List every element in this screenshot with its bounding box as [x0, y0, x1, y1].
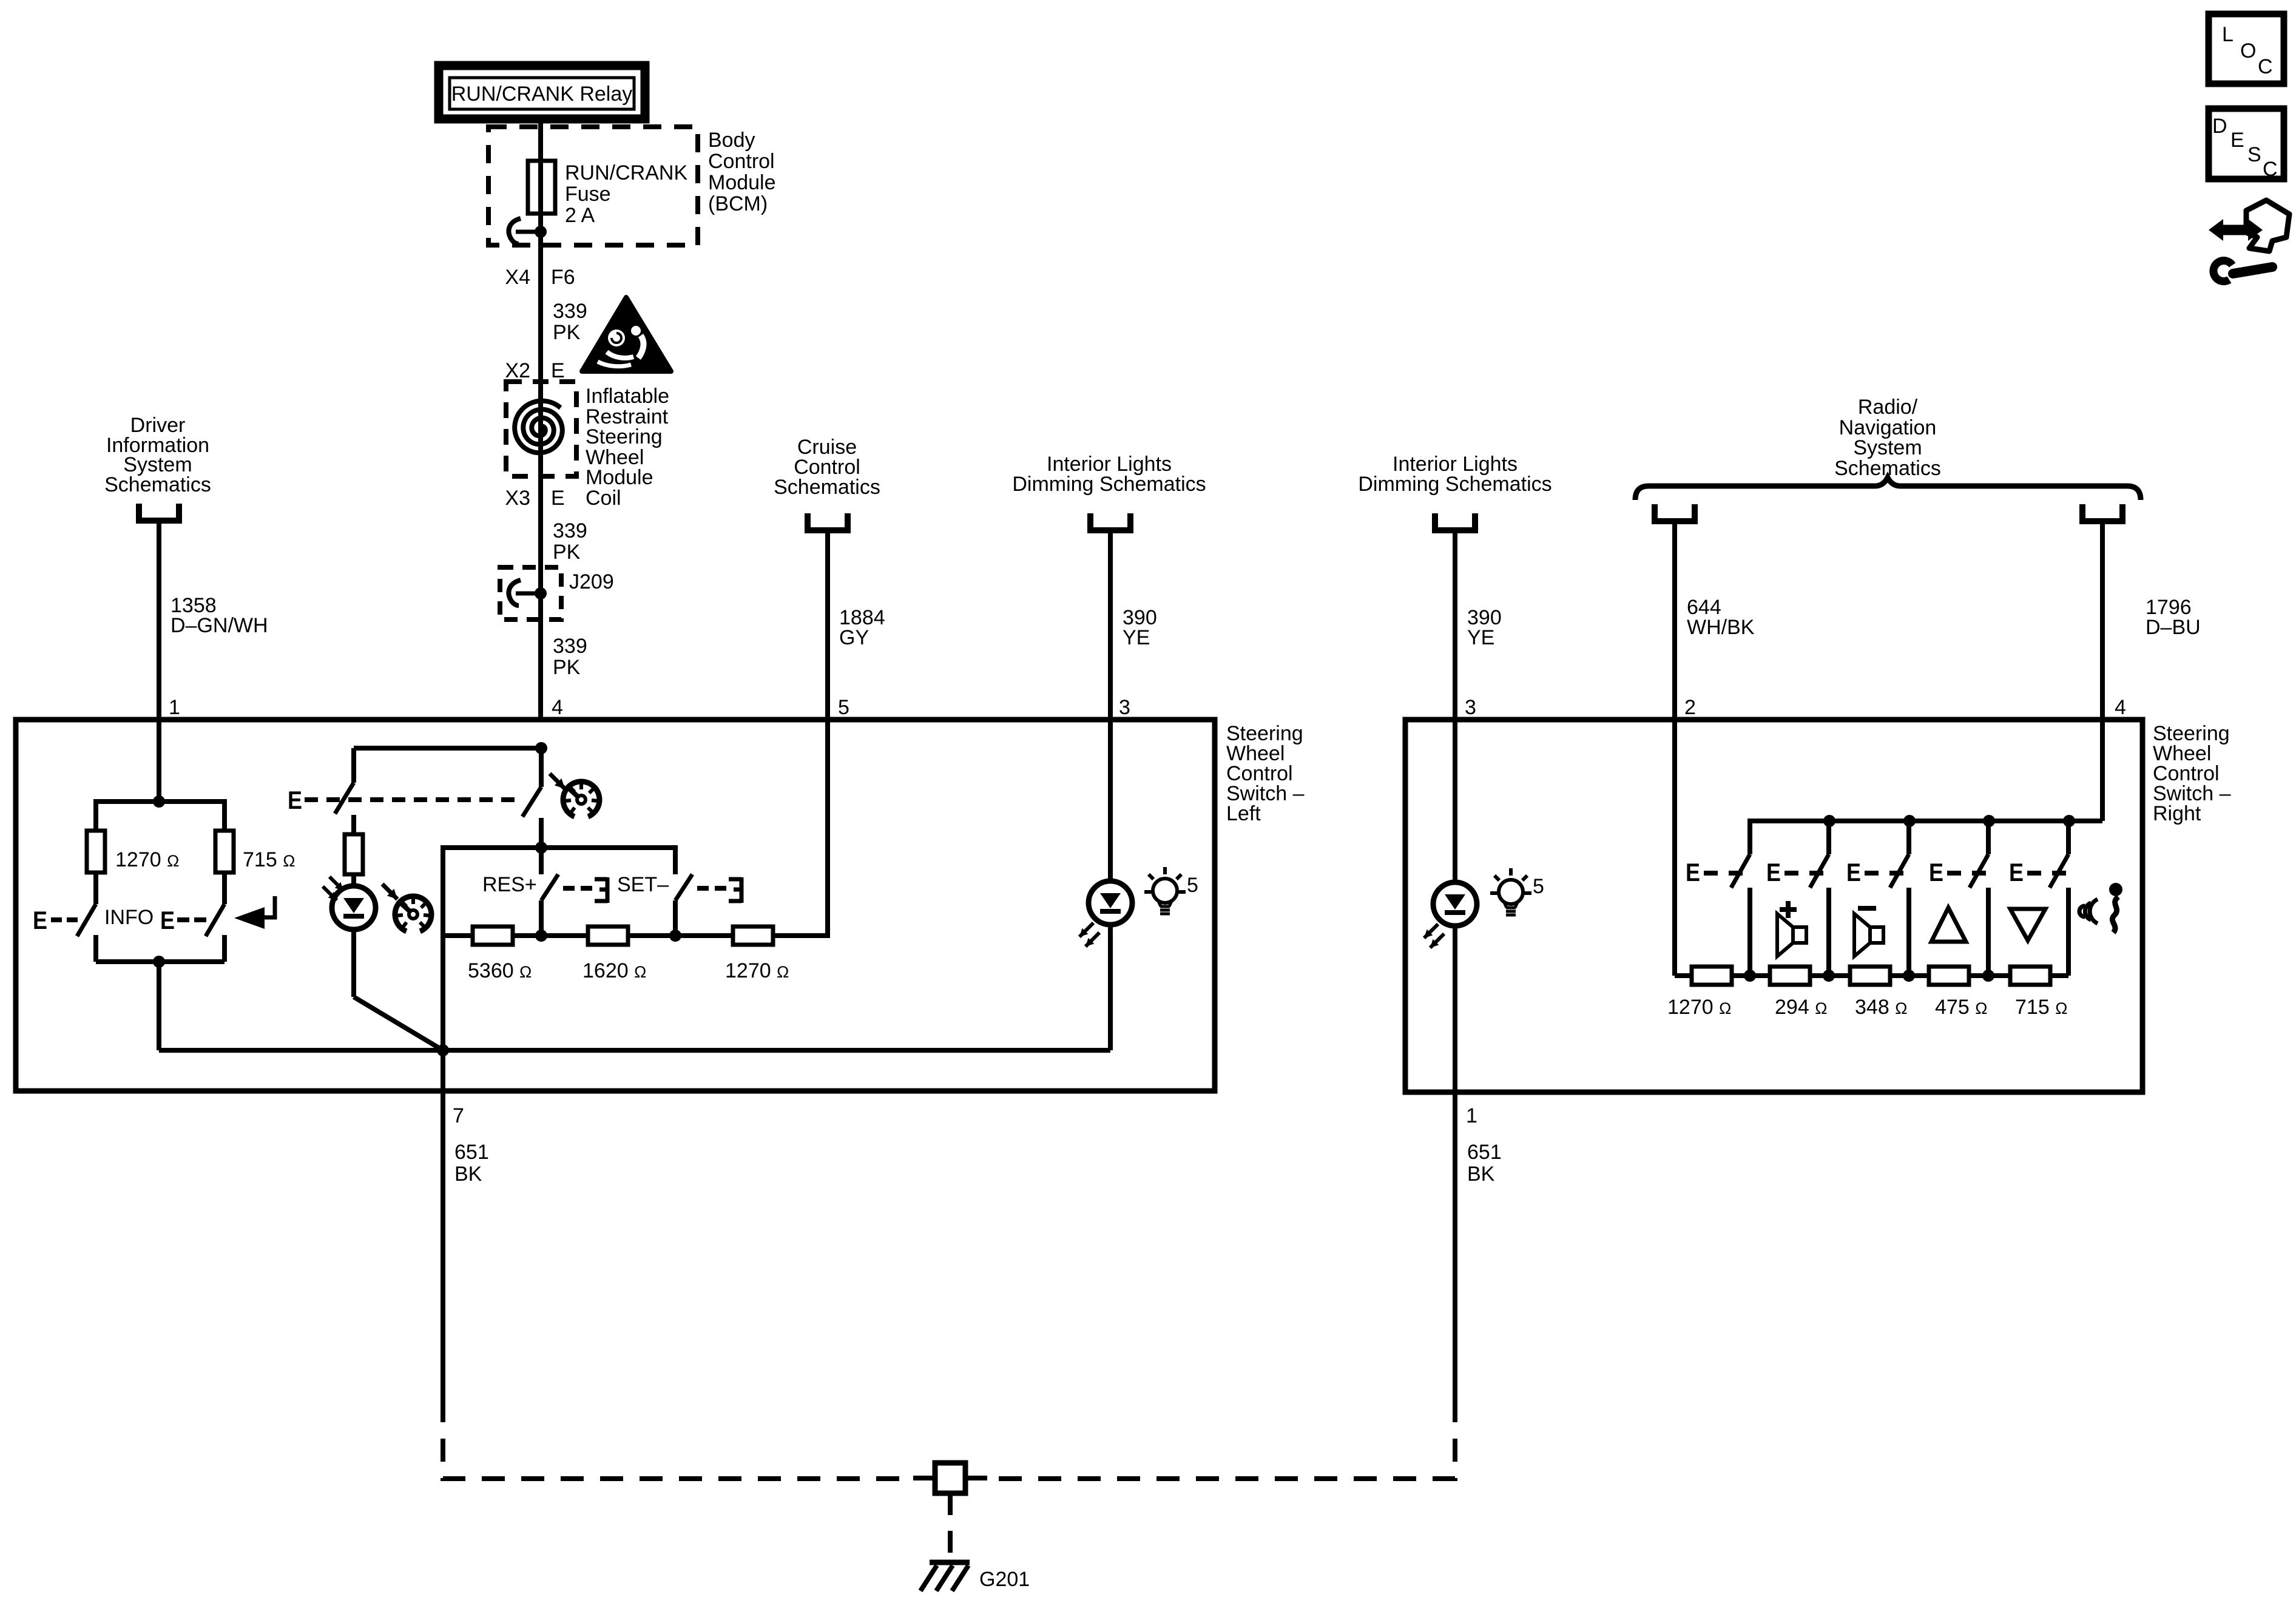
detent RES+ — [595, 877, 607, 882]
ground rail left box — [159, 1048, 1110, 1053]
BCM internal splice hook — [508, 218, 521, 244]
svg-text:1: 1 — [1466, 1104, 1477, 1127]
resistor 348 ohm — [1850, 967, 1890, 985]
resistor 294 ohm — [1770, 967, 1810, 985]
switch cruise on/off — [351, 748, 356, 783]
svg-text:Radio/: Radio/ — [1858, 396, 1918, 419]
svg-text:Inflatable: Inflatable — [586, 385, 669, 408]
svg-text:WH/BK: WH/BK — [1687, 616, 1755, 639]
wire 651 BK right — [1453, 1092, 1457, 1399]
svg-text:Dimming Schematics: Dimming Schematics — [1012, 473, 1206, 496]
switch seek down — [1986, 821, 1991, 854]
svg-text:RUN/CRANK Relay: RUN/CRANK Relay — [451, 83, 633, 106]
svg-text:G201: G201 — [979, 1568, 1030, 1591]
svg-text:3: 3 — [1119, 696, 1130, 719]
svg-text:System: System — [1853, 436, 1922, 459]
wire 1884 GY — [825, 530, 830, 720]
svg-text:1270 Ω: 1270 Ω — [1667, 996, 1731, 1019]
svg-text:294 Ω: 294 Ω — [1775, 996, 1827, 1019]
svg-text:651: 651 — [1467, 1141, 1502, 1164]
volume plus icon — [1780, 907, 1797, 912]
switch RES+ — [539, 848, 544, 874]
svg-text:3: 3 — [1465, 696, 1476, 719]
cruise on/off branch rail — [354, 746, 541, 751]
clockspring coil spiral J? — [538, 382, 543, 476]
svg-text:4: 4 — [552, 696, 563, 719]
svg-text:715 Ω: 715 Ω — [243, 848, 295, 871]
off-page connector cruise — [808, 513, 848, 530]
INFO network bottom rail — [96, 959, 225, 964]
LED interior dimming left — [1089, 881, 1132, 925]
svg-text:PK: PK — [553, 541, 581, 564]
switch INFO left — [93, 873, 98, 904]
switch INFO right — [222, 873, 227, 904]
svg-text:PK: PK — [553, 656, 581, 679]
svg-text:Left: Left — [1226, 802, 1261, 825]
svg-text:F6: F6 — [551, 266, 575, 289]
svg-text:INFO: INFO — [104, 906, 154, 929]
svg-text:E: E — [1846, 858, 1861, 886]
svg-text:O: O — [2240, 39, 2256, 62]
ground connector square — [913, 1476, 935, 1480]
svg-text:SET–: SET– — [617, 873, 669, 896]
svg-text:YE: YE — [1467, 626, 1494, 649]
brace radio/navigation — [1635, 478, 2141, 500]
svg-text:RUN/CRANK: RUN/CRANK — [565, 161, 687, 184]
LED interior dimming right — [1433, 882, 1477, 926]
switch seek up — [1906, 821, 1911, 854]
svg-text:C: C — [2263, 158, 2278, 181]
wire LED to pin 1 — [1453, 926, 1457, 1092]
inflatable restraint steering wheel module coil dashed box — [506, 382, 576, 476]
svg-text:E: E — [33, 906, 47, 934]
steering wheel control switch right box — [1405, 720, 2142, 1092]
svg-text:YE: YE — [1123, 626, 1150, 649]
svg-text:E: E — [551, 487, 565, 510]
fuse F6 RUN/CRANK 2A — [538, 161, 543, 214]
svg-text:X3: X3 — [505, 487, 530, 510]
splice J209 dashed box — [500, 567, 561, 619]
resistor 1270 ohm right — [1692, 967, 1732, 985]
svg-text:X4: X4 — [505, 266, 530, 289]
wire LED to ground rail left — [1108, 925, 1113, 1050]
svg-text:Steering: Steering — [586, 425, 663, 448]
svg-text:C: C — [2258, 55, 2273, 78]
resistor 1270 ohm INFO — [87, 831, 105, 873]
svg-text:475 Ω: 475 Ω — [1935, 996, 1987, 1019]
off-page connector interior lights left — [1090, 513, 1130, 530]
RUN/CRANK relay box — [439, 66, 645, 119]
svg-text:Right: Right — [2153, 802, 2201, 825]
resistor 1620 ohm — [588, 927, 628, 945]
steering wheel control switch left box — [16, 720, 1215, 1091]
svg-text:2 A: 2 A — [565, 204, 595, 227]
off-page connector interior lights right — [1435, 513, 1475, 530]
svg-text:1270 Ω: 1270 Ω — [725, 959, 789, 982]
svg-text:L: L — [2222, 23, 2234, 46]
svg-text:BK: BK — [454, 1163, 482, 1186]
svg-text:RES+: RES+ — [482, 873, 537, 896]
svg-text:Fuse: Fuse — [565, 183, 611, 206]
voice recognition icon — [2109, 883, 2122, 896]
svg-text:1620 Ω: 1620 Ω — [582, 959, 646, 982]
svg-text:S: S — [2247, 143, 2261, 166]
svg-text:348 Ω: 348 Ω — [1855, 996, 1907, 1019]
seek up triangle icon — [1931, 908, 1966, 942]
svg-text:X2: X2 — [505, 359, 530, 382]
svg-text:Dimming Schematics: Dimming Schematics — [1358, 473, 1551, 496]
svg-text:BK: BK — [1467, 1163, 1495, 1186]
wire 339 PK to pin 4 — [538, 567, 543, 720]
dashed ground wire right — [987, 1399, 1455, 1479]
SIR airbag warning triangle — [582, 297, 671, 371]
detent SET- — [729, 877, 741, 882]
svg-text:PK: PK — [553, 321, 581, 344]
switch volume down — [1826, 821, 1831, 854]
svg-text:E: E — [1686, 858, 1700, 886]
splice J209 junction — [535, 587, 547, 599]
svg-text:7: 7 — [453, 1104, 464, 1127]
resistor 475 ohm — [1929, 967, 1969, 985]
ground G201 — [930, 1560, 970, 1565]
resistor 715 ohm INFO — [215, 831, 234, 873]
svg-text:(BCM): (BCM) — [708, 192, 768, 215]
display/info icon — [234, 907, 265, 929]
resistor chain right box — [1675, 973, 1692, 978]
node wire1 junction — [157, 720, 161, 802]
svg-text:Schematics: Schematics — [104, 473, 211, 496]
svg-text:4: 4 — [2115, 696, 2126, 719]
svg-text:E: E — [160, 906, 175, 934]
dashed wire to G201 — [948, 1493, 953, 1561]
pin 7 riser — [441, 936, 445, 1091]
switch cruise master contact — [539, 748, 544, 787]
svg-text:Coil: Coil — [586, 487, 621, 510]
svg-text:339: 339 — [553, 635, 587, 658]
wire 651 BK left — [441, 1091, 445, 1399]
diagonal wire LED to ground rail — [354, 997, 443, 1050]
seek down triangle icon — [2010, 909, 2045, 940]
svg-text:5360 Ω: 5360 Ω — [468, 959, 532, 982]
svg-text:Control: Control — [708, 150, 775, 173]
svg-text:D–GN/WH: D–GN/WH — [171, 614, 268, 637]
svg-text:GY: GY — [839, 626, 869, 649]
junction in BCM — [535, 226, 547, 238]
wire INFO to ground rail — [157, 962, 161, 1050]
resistor cruise LED — [345, 834, 363, 874]
svg-text:E: E — [551, 359, 565, 382]
LOC legend box — [2209, 14, 2284, 84]
wire 339 PK to J209 — [538, 476, 543, 567]
bulb icon right — [1499, 880, 1523, 904]
svg-text:E: E — [1929, 858, 1943, 886]
svg-text:E: E — [1766, 858, 1781, 886]
switch volume up — [1731, 854, 1750, 888]
gauge icon cruise switch — [550, 774, 565, 789]
LED cruise indicator — [329, 877, 343, 891]
wire fuse to X4 — [538, 214, 543, 382]
diagnostic tool icon — [2246, 200, 2289, 251]
svg-text:E: E — [2009, 858, 2024, 886]
DESC legend box — [2209, 109, 2284, 179]
svg-text:Module: Module — [708, 171, 776, 194]
off-page connector driver info — [139, 504, 179, 521]
wire 390 YE right — [1453, 530, 1457, 882]
resistor 5360 ohm — [473, 927, 513, 945]
svg-text:D–BU: D–BU — [2146, 616, 2201, 639]
svg-text:5: 5 — [1187, 874, 1198, 897]
svg-text:1: 1 — [169, 696, 180, 719]
svg-text:D: D — [2212, 115, 2227, 138]
svg-text:5: 5 — [1533, 875, 1544, 898]
svg-text:1270 Ω: 1270 Ω — [115, 848, 179, 871]
svg-text:Body: Body — [708, 129, 755, 152]
svg-text:E: E — [288, 786, 302, 814]
RES/SET ladder top rail — [443, 848, 675, 936]
volume minus icon — [1858, 906, 1876, 911]
body control module BCM dashed box — [488, 127, 698, 245]
wire relay to BCM — [538, 119, 543, 161]
switch voice — [2066, 821, 2071, 854]
svg-text:5: 5 — [838, 696, 849, 719]
svg-text:Module: Module — [586, 466, 653, 489]
svg-text:Schematics: Schematics — [774, 476, 880, 499]
svg-text:E: E — [2230, 129, 2244, 152]
wire 1358 D-GN/WH — [157, 521, 161, 720]
wire 390 YE left — [1108, 530, 1113, 881]
resistor chain left box — [443, 933, 473, 938]
off-page connector radio right — [2082, 504, 2122, 521]
resistor 1270 ohm cruise — [733, 927, 773, 945]
wire chain to pin5 riser — [773, 720, 828, 936]
resistor 715 ohm right — [2010, 967, 2050, 985]
svg-text:339: 339 — [553, 519, 587, 542]
svg-text:339: 339 — [553, 300, 587, 323]
dashed ground wire left — [443, 1399, 913, 1479]
wire 644 WH/BK — [1672, 521, 1677, 976]
INFO network top rail — [96, 802, 225, 831]
svg-text:J209: J209 — [569, 570, 614, 593]
wire 1796 D-BU — [2100, 521, 2105, 821]
radio switch bus — [2100, 720, 2105, 821]
bulb icon left — [1153, 879, 1177, 903]
wrench icon — [2233, 267, 2272, 274]
off-page connector radio left — [1655, 504, 1695, 521]
svg-text:2: 2 — [1684, 696, 1696, 719]
gauge icon cruise LED — [382, 884, 397, 899]
svg-text:715 Ω: 715 Ω — [2015, 996, 2067, 1019]
svg-text:651: 651 — [454, 1141, 489, 1164]
